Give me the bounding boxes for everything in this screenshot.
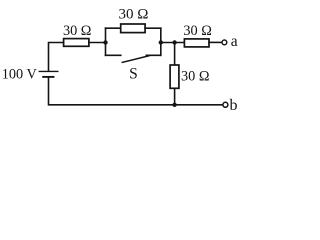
battery V1 long plate (positive) bbox=[39, 70, 58, 72]
wire: R1 to node L bbox=[89, 42, 106, 44]
svg-text:30 Ω: 30 Ω bbox=[119, 7, 149, 23]
switch S right lead bbox=[146, 54, 161, 56]
wire: node C down to R4 bbox=[174, 43, 176, 66]
svg-text:b: b bbox=[230, 97, 238, 114]
wire: R3 to terminal a bbox=[209, 41, 222, 43]
resistor R3 30Ω body bbox=[184, 39, 209, 47]
resistor R1 30Ω body bbox=[64, 39, 89, 47]
svg-text:30 Ω: 30 Ω bbox=[63, 23, 92, 39]
resistor R4 30Ω body (vertical) bbox=[170, 65, 179, 88]
svg-text:100 V: 100 V bbox=[2, 66, 38, 82]
wire: node R riser (vertical between top branch and switch branch) bbox=[160, 28, 162, 55]
wire: top branch left segment bbox=[106, 27, 121, 29]
resistor R2 30Ω body (parallel with switch) bbox=[121, 24, 145, 33]
wire: R4 down to bottom node D bbox=[174, 88, 176, 105]
terminal a open circle bbox=[222, 40, 227, 45]
svg-text:a: a bbox=[231, 33, 238, 50]
wire: bottom rail from battery to terminal b bbox=[49, 78, 223, 105]
wire: node R to node C and on to R3 bbox=[161, 42, 185, 44]
svg-text:S: S bbox=[129, 66, 138, 83]
node L junction dot bbox=[103, 40, 107, 44]
switch S open blade bbox=[122, 56, 149, 63]
switch S left lead bbox=[106, 54, 121, 56]
terminal b open circle bbox=[223, 102, 228, 107]
node C junction dot bbox=[172, 40, 176, 44]
svg-text:30 Ω: 30 Ω bbox=[183, 23, 212, 39]
wire: top branch right segment bbox=[145, 27, 161, 29]
node D junction dot bbox=[172, 103, 176, 107]
node R junction dot bbox=[159, 40, 163, 44]
battery V1 short plate (negative) bbox=[43, 76, 53, 78]
wire: battery positive lead up and top rail to R1 bbox=[49, 43, 64, 72]
svg-text:30 Ω: 30 Ω bbox=[181, 69, 210, 85]
wire: node L riser (vertical between top branch and switch branch) bbox=[105, 28, 107, 55]
